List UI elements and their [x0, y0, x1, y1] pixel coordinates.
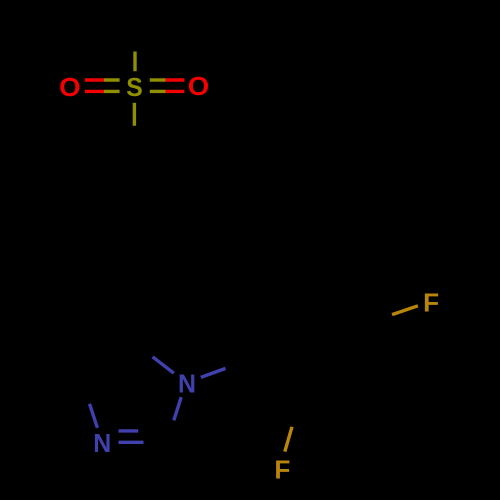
svg-text:O: O	[188, 71, 210, 101]
bond aryl C2'-F ortho fluorine (fluorine half)	[285, 427, 292, 452]
bond aryl C4'-F para fluorine (fluorine half)	[392, 306, 418, 315]
bond S=O left, upper line olive half	[104, 78, 120, 81]
svg-text:N: N	[178, 368, 196, 398]
bond S=O right, upper line olive half	[150, 78, 166, 81]
svg-text:N: N	[93, 428, 111, 458]
bond S=O right, upper line red half	[166, 78, 185, 81]
bond N3-C4 of imidazole (nitrogen half)	[90, 404, 98, 428]
svg-text:F: F	[423, 287, 439, 317]
bond CH3-S (sulfur half)	[133, 52, 136, 72]
bond S=O left, lower line olive half	[104, 90, 120, 93]
bond C2=N3 main line (nitrogen half)	[119, 441, 144, 444]
svg-text:O: O	[59, 72, 81, 102]
bond S=O left, upper line red half	[85, 78, 104, 81]
bond N1-C2 of imidazole (nitrogen half)	[174, 397, 181, 420]
bond N1-aryl to difluorophenyl (nitrogen half)	[201, 368, 226, 377]
bond C2=N3 inner double line (nitrogen half)	[119, 429, 139, 432]
bond S=O left, lower line red half	[85, 90, 104, 93]
bond S-phenyl (sulfur half)	[133, 103, 136, 126]
svg-text:F: F	[274, 454, 290, 484]
bond S=O right, lower line red half	[166, 90, 185, 93]
svg-text:S: S	[126, 72, 143, 102]
bond C5-N1 of imidazole (nitrogen half)	[153, 357, 174, 373]
bond S=O right, lower line olive half	[150, 90, 166, 93]
